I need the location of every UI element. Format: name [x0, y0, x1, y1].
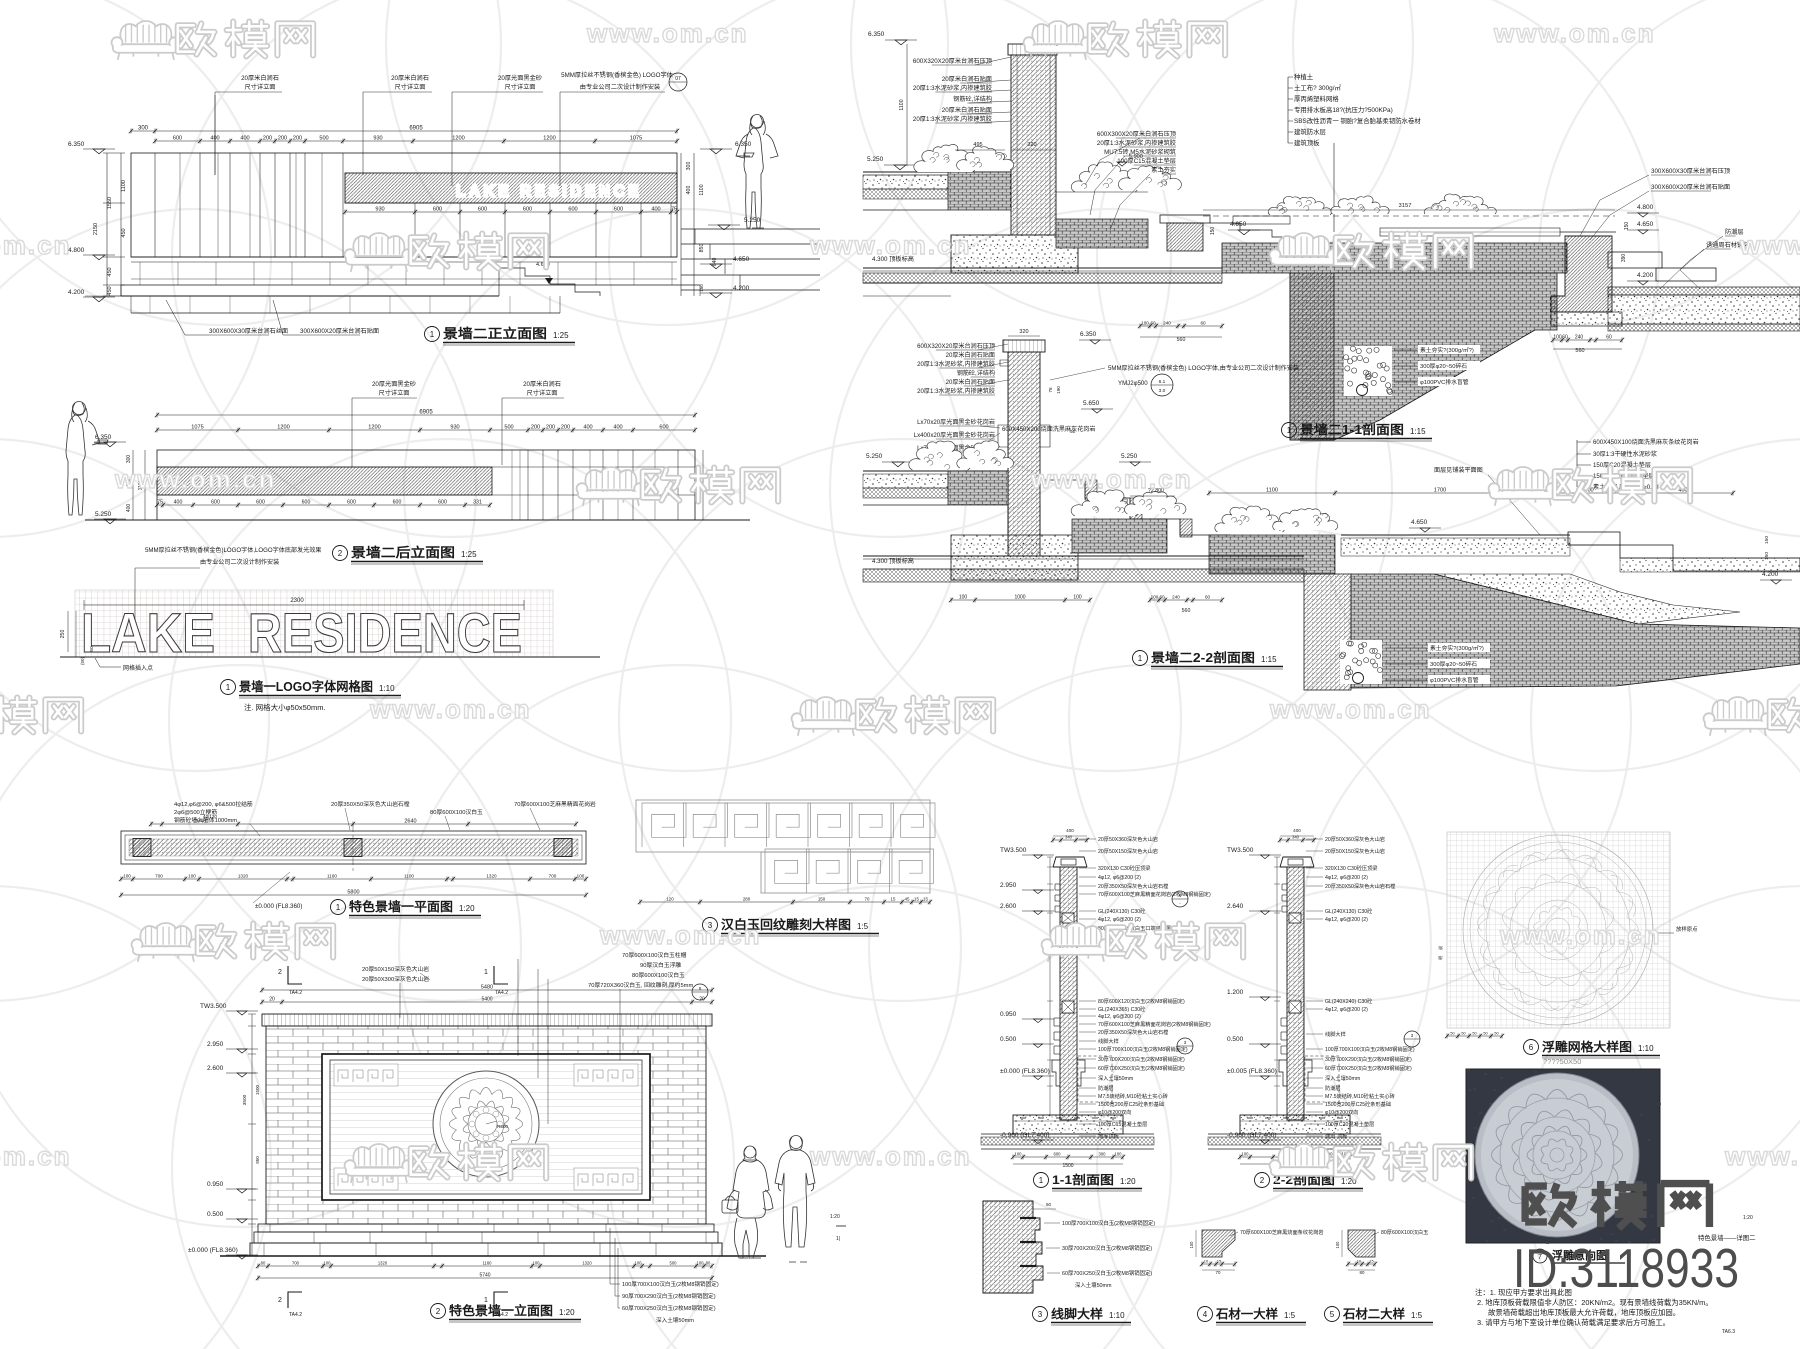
- svg-text:网格插入点: 网格插入点: [123, 664, 153, 672]
- svg-text:60: 60: [1200, 321, 1206, 326]
- svg-text:50: 50: [1472, 1032, 1476, 1036]
- svg-text:±0.005 (FL8.360): ±0.005 (FL8.360): [1227, 1068, 1277, 1075]
- svg-text:15: 15: [923, 897, 928, 902]
- svg-text:15: 15: [1217, 1259, 1222, 1264]
- svg-text:100: 100: [533, 1261, 541, 1266]
- svg-text:GL(240X365) C30砼: GL(240X365) C30砼: [1098, 1005, 1146, 1013]
- svg-text:60厚700X250汉白玉(2枚M8钢销固定): 60厚700X250汉白玉(2枚M8钢销固定): [622, 1304, 716, 1312]
- svg-text:1160: 1160: [482, 1261, 492, 1266]
- svg-text:Lx400x20厚光面黑金砂花岗岩: Lx400x20厚光面黑金砂花岗岩: [914, 431, 995, 439]
- svg-text:TA4.2: TA4.2: [289, 990, 302, 996]
- svg-text:60: 60: [1205, 595, 1211, 600]
- svg-text:700: 700: [292, 1261, 300, 1266]
- svg-text:1320: 1320: [486, 874, 497, 879]
- svg-text:专用排水板高18?(抗压力?500KPa): 专用排水板高18?(抗压力?500KPa): [1294, 105, 1393, 114]
- svg-text:1:5: 1:5: [1411, 1311, 1423, 1320]
- svg-text:1:10: 1:10: [1638, 1044, 1654, 1053]
- svg-text:1:5: 1:5: [857, 922, 869, 931]
- svg-text:www.om.cn: www.om.cn: [1030, 464, 1193, 494]
- svg-text:2: 2: [278, 1297, 282, 1304]
- svg-text:3157: 3157: [1399, 203, 1412, 209]
- svg-text:www.om.cn: www.om.cn: [1739, 230, 1800, 260]
- svg-text:80: 80: [1360, 1270, 1365, 1275]
- G4 section 1-1: [863, 31, 1800, 441]
- svg-text:0.950: 0.950: [207, 1181, 224, 1188]
- svg-text:300X600X30厚米台涧石压顶: 300X600X30厚米台涧石压顶: [1651, 167, 1730, 175]
- svg-text:240: 240: [1163, 321, 1171, 326]
- svg-text:TA4.2: TA4.2: [495, 990, 508, 996]
- svg-text:尺寸详立面: 尺寸详立面: [505, 83, 536, 91]
- svg-text:600: 600: [256, 500, 265, 506]
- svg-text:30厚1:3干硬性水泥砂浆: 30厚1:3干硬性水泥砂浆: [1593, 450, 1657, 458]
- svg-text:600: 600: [1054, 1152, 1062, 1157]
- svg-text:6: 6: [1529, 1043, 1534, 1052]
- svg-text:2150: 2150: [93, 223, 99, 235]
- svg-text:80厚600X100汉白玉: 80厚600X100汉白玉: [1381, 1228, 1428, 1236]
- svg-text:340: 340: [1292, 835, 1300, 840]
- svg-text:尺寸详立面: 尺寸详立面: [245, 83, 276, 91]
- svg-text:-0.960 (GL7.400): -0.960 (GL7.400): [1000, 1132, 1050, 1139]
- svg-text:1:15: 1:15: [1410, 427, 1426, 436]
- svg-text:495: 495: [973, 142, 982, 148]
- svg-text:600: 600: [393, 500, 402, 506]
- svg-text:100厚C15混凝土垫层: 100厚C15混凝土垫层: [1098, 1120, 1147, 1128]
- svg-text:90厚汉白玉浮雕: 90厚汉白玉浮雕: [640, 961, 681, 969]
- svg-text:4φ12, φ6@200 (2): 4φ12, φ6@200 (2): [1098, 1014, 1141, 1020]
- svg-text:5MM厚拉丝不锈钢(香槟金色)LOGO字体,LOGO字体底部: 5MM厚拉丝不锈钢(香槟金色)LOGO字体,LOGO字体底部发光效果: [145, 546, 321, 554]
- svg-text:60厚700X250汉白玉(2枚M8钢销固定): 60厚700X250汉白玉(2枚M8钢销固定): [1325, 1064, 1412, 1072]
- svg-text:6905: 6905: [409, 126, 423, 132]
- svg-text:0.500: 0.500: [1227, 1036, 1244, 1043]
- svg-text:尺寸详立面: 尺寸详立面: [395, 83, 426, 91]
- svg-text:防潮层: 防潮层: [1325, 1084, 1341, 1092]
- svg-text:6.350: 6.350: [735, 141, 752, 148]
- svg-text:建筑防水层: 建筑防水层: [1294, 127, 1327, 136]
- svg-text:LAKE RESIDENCE: LAKE RESIDENCE: [456, 183, 642, 201]
- svg-text:3: 3: [1038, 1310, 1043, 1319]
- svg-text:400: 400: [1293, 828, 1301, 833]
- svg-text:1100: 1100: [899, 99, 905, 110]
- svg-text:300厚φ20~50碎石: 300厚φ20~50碎石: [1430, 660, 1477, 668]
- svg-text:LAKE: LAKE: [81, 601, 215, 664]
- svg-text:1:20: 1:20: [459, 904, 475, 913]
- svg-text:由专业公司二次设计制作安装: 由专业公司二次设计制作安装: [580, 83, 660, 91]
- svg-text:1500宽200厚C25砼条形基础: 1500宽200厚C25砼条形基础: [1098, 1100, 1164, 1108]
- svg-text:850: 850: [699, 244, 705, 253]
- svg-text:600: 600: [568, 207, 577, 213]
- svg-text:1: 1: [1287, 426, 1292, 435]
- svg-text:1550: 1550: [107, 197, 113, 209]
- svg-text:景墙二正立面图: 景墙二正立面图: [443, 326, 547, 341]
- svg-text:150: 150: [818, 897, 826, 902]
- svg-text:1: 1: [484, 969, 488, 976]
- svg-text:尺寸详立面: 尺寸详立面: [527, 389, 558, 397]
- svg-text:钢筋砼,详结构: 钢筋砼,详结构: [953, 95, 992, 103]
- svg-text:300X600X30厚米台涧石丝面: 300X600X30厚米台涧石丝面: [209, 327, 288, 335]
- svg-text:5800: 5800: [347, 890, 359, 896]
- svg-text:2: 2: [278, 969, 282, 976]
- svg-text:1:25: 1:25: [553, 331, 569, 340]
- svg-text:5.250: 5.250: [1121, 453, 1138, 460]
- svg-text:20: 20: [269, 997, 275, 1003]
- svg-text:20厚1:3水泥砂浆,内掺建筑胶: 20厚1:3水泥砂浆,内掺建筑胶: [913, 115, 992, 123]
- G2 back elevation: [66, 380, 750, 564]
- G12 relief grid: [1437, 832, 1698, 1066]
- svg-text:0.950: 0.950: [1000, 1011, 1017, 1018]
- svg-text:M7.5烧结砖,M10砼粘土实心砖: M7.5烧结砖,M10砼粘土实心砖: [1098, 1092, 1168, 1100]
- svg-text:5.250: 5.250: [866, 453, 883, 460]
- svg-text:GL(240X240) C30砼: GL(240X240) C30砼: [1325, 997, 1373, 1005]
- svg-text:200: 200: [278, 136, 287, 142]
- svg-text:±0.000 (FL8.360): ±0.000 (FL8.360): [188, 1247, 238, 1254]
- svg-text:700: 700: [549, 874, 557, 879]
- svg-text:深入土壤50mm: 深入土壤50mm: [1075, 1281, 1112, 1289]
- svg-text:500: 500: [504, 425, 513, 431]
- svg-text:150: 150: [699, 284, 704, 292]
- svg-text:RESIDENCE: RESIDENCE: [248, 601, 522, 664]
- svg-text:注：1. 现应甲方要求出具此图: 注：1. 现应甲方要求出具此图: [1475, 1288, 1572, 1297]
- svg-text:300: 300: [126, 455, 132, 464]
- svg-text:2.600: 2.600: [207, 1065, 224, 1072]
- svg-text:70厚600X100芝麻黑精面花岗岩(2枚M8钢销固定): 70厚600X100芝麻黑精面花岗岩(2枚M8钢销固定): [1098, 890, 1211, 898]
- svg-text:300X600X20厚米台涧石贴面: 300X600X20厚米台涧石贴面: [300, 327, 379, 335]
- svg-text:75: 75: [157, 500, 163, 506]
- svg-text:20厚1:3水泥砂浆,内掺建筑胶: 20厚1:3水泥砂浆,内掺建筑胶: [1097, 139, 1176, 147]
- svg-text:6.1: 6.1: [1159, 379, 1166, 385]
- G7 meander: [642, 803, 935, 893]
- svg-text:80: 80: [706, 1261, 711, 1266]
- svg-text:20厚米白涧石: 20厚米白涧石: [391, 74, 429, 82]
- svg-text:100: 100: [1335, 1241, 1340, 1249]
- svg-text:80: 80: [261, 1261, 266, 1266]
- svg-text:400: 400: [1066, 828, 1074, 833]
- svg-text:200: 200: [546, 425, 555, 431]
- svg-text:2640: 2640: [404, 819, 416, 825]
- svg-text:1: 1: [226, 683, 231, 692]
- svg-text:4φ12, φ6@200 (2): 4φ12, φ6@200 (2): [1325, 1007, 1368, 1013]
- svg-text:600: 600: [347, 500, 356, 506]
- svg-text:300X600X20厚米台涧石贴面: 300X600X20厚米台涧石贴面: [1651, 183, 1730, 191]
- svg-text:5: 5: [1330, 1310, 1335, 1319]
- svg-text:2: 2: [436, 1307, 441, 1316]
- svg-text:线脚大样: 线脚大样: [1051, 1306, 1103, 1321]
- svg-text:2.640: 2.640: [1227, 903, 1244, 910]
- svg-text:景墙二1-1剖面图: 景墙二1-1剖面图: [1300, 422, 1404, 437]
- svg-text:景墙二2-2剖面图: 景墙二2-2剖面图: [1151, 650, 1255, 665]
- svg-text:www.om.cn: www.om.cn: [1269, 694, 1432, 724]
- svg-text:20厚50X360深灰色大山岩: 20厚50X360深灰色大山岩: [1325, 835, 1385, 843]
- svg-text:10: 10: [1204, 1259, 1209, 1264]
- svg-text:4φ12, φ6@200 (2): 4φ12, φ6@200 (2): [1098, 917, 1141, 923]
- svg-text:1: 1: [336, 903, 341, 912]
- svg-text:100厚700X100汉白玉(2枚M8钢销固定): 100厚700X100汉白玉(2枚M8钢销固定): [1098, 1045, 1188, 1053]
- svg-text:950: 950: [255, 1156, 260, 1164]
- svg-text:素土夯实?(300g/㎡?): 素土夯实?(300g/㎡?): [1420, 346, 1474, 354]
- svg-text:6.350: 6.350: [868, 31, 885, 38]
- svg-text:特色景墙一立面图: 特色景墙一立面图: [449, 1303, 553, 1318]
- svg-text:4φ12, φ6@200 (2): 4φ12, φ6@200 (2): [1325, 875, 1368, 881]
- svg-text:1075: 1075: [191, 425, 203, 431]
- svg-text:建筑顶板: 建筑顶板: [1294, 138, 1320, 147]
- G3 logo grid: [60, 546, 600, 712]
- svg-text:4.200: 4.200: [733, 285, 750, 292]
- svg-text:300厚φ20~50碎石: 300厚φ20~50碎石: [1420, 362, 1467, 370]
- svg-text:2.600: 2.600: [1000, 903, 1017, 910]
- svg-text:建筑 顶板: 建筑 顶板: [1325, 1132, 1348, 1140]
- svg-text:1:15: 1:15: [1261, 655, 1277, 664]
- svg-text:15: 15: [914, 897, 919, 902]
- svg-text:????50X50: ????50X50: [1543, 1057, 1581, 1066]
- svg-text:5.250: 5.250: [95, 511, 112, 518]
- svg-text:www.om.cn: www.om.cn: [369, 694, 532, 724]
- svg-text:600: 600: [478, 207, 487, 213]
- svg-text:400: 400: [651, 207, 660, 213]
- svg-text:100: 100: [1015, 1152, 1023, 1157]
- svg-text:75: 75: [671, 207, 677, 213]
- svg-text:1200: 1200: [543, 136, 555, 142]
- svg-text:200: 200: [561, 425, 570, 431]
- svg-text:TW3.500: TW3.500: [1000, 847, 1027, 854]
- svg-text:5480: 5480: [481, 985, 493, 991]
- svg-text:TW3.500: TW3.500: [200, 1003, 227, 1010]
- svg-text:20厚米白涧石贴面: 20厚米白涧石贴面: [946, 378, 995, 386]
- svg-text:240: 240: [1172, 595, 1180, 600]
- svg-text:450: 450: [107, 267, 113, 276]
- svg-text:由专业公司二次设计制作安装: 由专业公司二次设计制作安装: [200, 558, 279, 566]
- svg-text:100: 100: [123, 874, 131, 879]
- svg-text:6905: 6905: [419, 410, 433, 416]
- svg-text:600: 600: [659, 425, 668, 431]
- svg-text:www.om.cn: www.om.cn: [1499, 920, 1662, 950]
- svg-text:320X130 C30砼压顶梁: 320X130 C30砼压顶梁: [1098, 864, 1150, 872]
- svg-text:50: 50: [1461, 1032, 1465, 1036]
- svg-text:5740: 5740: [479, 1273, 490, 1279]
- svg-text:φ100PVC排水盲管: φ100PVC排水盲管: [1420, 378, 1469, 386]
- svg-text:250: 250: [60, 630, 66, 639]
- svg-text:70: 70: [865, 897, 870, 902]
- svg-text:240: 240: [1575, 335, 1584, 341]
- svg-text:20厚米白涧石: 20厚米白涧石: [241, 74, 279, 82]
- svg-text:www.om.cn: www.om.cn: [1724, 1141, 1800, 1171]
- svg-text:1160: 1160: [327, 874, 337, 879]
- svg-text:50: 50: [1483, 1032, 1487, 1036]
- svg-text:5MM厚拉丝不锈钢(香槟金色) LOGO字体,由专业公司二次: 5MM厚拉丝不锈钢(香槟金色) LOGO字体,由专业公司二次设计制作安装: [1108, 364, 1299, 372]
- svg-text:70厚600X100汉白玉柱帽: 70厚600X100汉白玉柱帽: [622, 951, 687, 959]
- svg-text:2. 地库顶板荷载限值非人防区：20KN/m2。现有景墙线荷: 2. 地库顶板荷载限值非人防区：20KN/m2。现有景墙线荷载为35KN/m。: [1477, 1298, 1713, 1307]
- svg-text:1700: 1700: [1434, 488, 1446, 494]
- svg-text:1: 1: [1138, 654, 1143, 663]
- svg-text:3.0: 3.0: [1159, 388, 1166, 394]
- svg-text:300: 300: [1099, 1152, 1107, 1157]
- svg-text:320: 320: [1019, 329, 1028, 335]
- svg-text:φ10@200双向: φ10@200双向: [1098, 1108, 1131, 1116]
- svg-text:150: 150: [1764, 552, 1770, 560]
- svg-text:防潮层: 防潮层: [1098, 1084, 1114, 1092]
- svg-text:500: 500: [670, 1261, 678, 1266]
- svg-text:300: 300: [686, 162, 692, 171]
- svg-text:450: 450: [121, 228, 127, 237]
- svg-text:1500宽200厚C25砼条形基础: 1500宽200厚C25砼条形基础: [1325, 1100, 1391, 1108]
- svg-text:1100: 1100: [404, 874, 414, 879]
- svg-text:1075: 1075: [630, 136, 642, 142]
- svg-text:5.250: 5.250: [867, 156, 884, 163]
- svg-text:深入土壤50mm: 深入土壤50mm: [1325, 1074, 1360, 1082]
- svg-text:07: 07: [675, 76, 681, 82]
- G6 plan: [119, 800, 596, 918]
- svg-text:10: 10: [1357, 1259, 1362, 1264]
- svg-text:100: 100: [324, 1261, 332, 1266]
- svg-text:1320: 1320: [238, 874, 249, 879]
- svg-text:100厚C15混凝土垫层: 100厚C15混凝土垫层: [1117, 157, 1176, 165]
- svg-text:TW3.500: TW3.500: [1227, 847, 1254, 854]
- G9 wall sections: [981, 828, 1154, 1169]
- svg-text:种植土: 种植土: [1294, 72, 1314, 81]
- svg-text:930: 930: [373, 136, 382, 142]
- svg-text:YMJ2φ500: YMJ2φ500: [1118, 380, 1148, 387]
- svg-text:20厚50X360深灰色大山岩: 20厚50X360深灰色大山岩: [1098, 835, 1158, 843]
- svg-text:1200: 1200: [452, 136, 464, 142]
- svg-text:GL(240X130) C30砼: GL(240X130) C30砼: [1098, 907, 1146, 915]
- svg-text:www.om.cn: www.om.cn: [599, 920, 762, 950]
- svg-text:150: 150: [1210, 227, 1216, 236]
- svg-text:www.om.cn: www.om.cn: [809, 1141, 972, 1171]
- svg-text:1320: 1320: [378, 1261, 388, 1266]
- svg-text:600: 600: [173, 136, 182, 142]
- svg-text:www.om.cn: www.om.cn: [809, 230, 972, 260]
- svg-text:100: 100: [188, 874, 196, 879]
- svg-text:±0.000 (FL8.360): ±0.000 (FL8.360): [1000, 1068, 1050, 1075]
- svg-text:280: 280: [743, 897, 751, 902]
- svg-text:100: 100: [1553, 335, 1562, 341]
- svg-text:SBS改性沥青一 铜胎?复合胎基柔韧防水卷材: SBS改性沥青一 铜胎?复合胎基柔韧防水卷材: [1294, 116, 1421, 125]
- svg-text:60厚700X250汉白玉(2枚M8钢销固定): 60厚700X250汉白玉(2枚M8钢销固定): [1062, 1269, 1152, 1277]
- svg-text:4φ12, φ6@200 (2): 4φ12, φ6@200 (2): [1098, 875, 1141, 881]
- svg-text:90厚700X290汉白玉(2枚M8钢销固定): 90厚700X290汉白玉(2枚M8钢销固定): [622, 1292, 716, 1300]
- svg-text:400: 400: [613, 425, 622, 431]
- G10 molding detail: [983, 1201, 1155, 1325]
- svg-text:0.500: 0.500: [207, 1211, 224, 1218]
- svg-text:注. 网格大小φ50x50mm.: 注. 网格大小φ50x50mm.: [244, 702, 326, 712]
- svg-text:60: 60: [1150, 321, 1156, 326]
- svg-text:150: 150: [1764, 536, 1770, 544]
- svg-text:3. 请甲方与地下室设计单位确认荷载满足要求后方可施工。: 3. 请甲方与地下室设计单位确认荷载满足要求后方可施工。: [1477, 1318, 1670, 1327]
- svg-text:1:10: 1:10: [1109, 1311, 1125, 1320]
- svg-text:1200: 1200: [277, 425, 289, 431]
- svg-text:20厚350X50深灰色大山岩石樘: 20厚350X50深灰色大山岩石樘: [1098, 882, 1168, 890]
- svg-text:100: 100: [577, 874, 585, 879]
- svg-text:190: 190: [1056, 386, 1061, 394]
- svg-text:4.200: 4.200: [1762, 571, 1779, 578]
- svg-text:1:20: 1:20: [1743, 1215, 1753, 1221]
- svg-text:www.om.cn: www.om.cn: [114, 464, 277, 494]
- svg-text:4.650: 4.650: [1411, 519, 1428, 526]
- svg-text:600X300X20厚米白涧石压顶: 600X300X20厚米白涧石压顶: [1097, 130, 1176, 138]
- svg-text:TA4.2: TA4.2: [289, 1312, 302, 1318]
- svg-text:浮雕网格大样图: 浮雕网格大样图: [1542, 1039, 1632, 1054]
- svg-text:1:10: 1:10: [379, 684, 395, 693]
- svg-text:30厚700X200汉白玉(2枚M8钢销固定): 30厚700X200汉白玉(2枚M8钢销固定): [1098, 1055, 1185, 1063]
- svg-text:钢筋砼墙入墙体1000mm: 钢筋砼墙入墙体1000mm: [174, 816, 237, 824]
- svg-text:200: 200: [531, 425, 540, 431]
- G14 watermark brand and id: [1525, 1181, 1709, 1228]
- svg-text:100: 100: [959, 595, 968, 601]
- svg-text:素土夯实: 素土夯实: [1151, 166, 1176, 174]
- svg-text:100: 100: [697, 1261, 705, 1266]
- svg-text:5400: 5400: [481, 997, 492, 1003]
- svg-text:景墙二后立面图: 景墙二后立面图: [351, 545, 455, 560]
- svg-text:70厚600X100芝麻黑烧面条纹花岗岩: 70厚600X100芝麻黑烧面条纹花岗岩: [1240, 1228, 1324, 1236]
- svg-text:(50): (50): [80, 657, 85, 666]
- svg-text:100: 100: [1073, 595, 1082, 601]
- svg-text:1:5: 1:5: [1284, 1311, 1296, 1320]
- svg-text:5.900: 5.900: [1129, 154, 1143, 160]
- svg-text:78: 78: [1048, 387, 1053, 393]
- svg-text:70: 70: [1216, 1270, 1221, 1275]
- svg-text:线脚大样: 线脚大样: [1325, 1030, 1346, 1038]
- svg-text:100: 100: [1141, 321, 1149, 326]
- svg-text:50: 50: [89, 646, 95, 652]
- svg-text:www.om.cn: www.om.cn: [586, 18, 749, 48]
- svg-text:80厚600X100汉白玉: 80厚600X100汉白玉: [632, 971, 685, 979]
- svg-text:60: 60: [1159, 595, 1165, 600]
- svg-text:1: 1: [484, 1297, 488, 1304]
- svg-text:-0.960 (GL7.400): -0.960 (GL7.400): [1227, 1132, 1277, 1139]
- svg-text:石材二大样: 石材二大样: [1342, 1306, 1405, 1321]
- svg-text:GL(240X130) C30砼: GL(240X130) C30砼: [1325, 907, 1373, 915]
- svg-text:200: 200: [293, 136, 302, 142]
- svg-text:www.om.cn: www.om.cn: [0, 230, 72, 260]
- svg-text:4φ12,φ6@200, φ6&500拉结筋: 4φ12,φ6@200, φ6&500拉结筋: [174, 800, 253, 808]
- svg-text:20厚350X50深灰色大山岩石樘: 20厚350X50深灰色大山岩石樘: [1325, 882, 1395, 890]
- svg-text:土工布? 300g/㎡: 土工布? 300g/㎡: [1294, 83, 1341, 92]
- svg-text:20厚米白涧石贴面: 20厚米白涧石贴面: [946, 351, 995, 359]
- svg-text:深入土壤50mm: 深入土壤50mm: [1098, 1074, 1133, 1082]
- svg-text:150: 150: [1624, 222, 1630, 231]
- svg-text:120: 120: [666, 897, 674, 902]
- svg-text:1200: 1200: [368, 425, 380, 431]
- svg-text:60厚700X250汉白玉(2枚M8钢销固定): 60厚700X250汉白玉(2枚M8钢销固定): [1098, 1064, 1185, 1072]
- svg-text:地库顶板: 地库顶板: [1098, 1132, 1120, 1140]
- svg-text:600X450X200烧面洗黑麻灰花岗岩: 600X450X200烧面洗黑麻灰花岗岩: [1002, 425, 1095, 433]
- svg-text:70厚720X360汉白玉, 回纹雕刻,厚约5mm: 70厚720X360汉白玉, 回纹雕刻,厚约5mm: [588, 981, 694, 989]
- svg-text:故景墙荷载超出地库顶板最大允许荷载，地库顶板应加固。: 故景墙荷载超出地库顶板最大允许荷载，地库顶板应加固。: [1488, 1308, 1680, 1317]
- svg-text:560: 560: [1182, 608, 1191, 614]
- svg-text:100厚C20混凝土垫层: 100厚C20混凝土垫层: [1325, 1120, 1374, 1128]
- svg-text:4.800: 4.800: [1637, 204, 1654, 211]
- svg-text:600: 600: [302, 500, 311, 506]
- svg-text:1-1剖面图: 1-1剖面图: [1052, 1172, 1114, 1187]
- svg-text:www.om.cn: www.om.cn: [0, 1141, 72, 1171]
- svg-text:400: 400: [126, 504, 132, 513]
- svg-text:400: 400: [240, 136, 249, 142]
- svg-text:厚丙烯塑料网格: 厚丙烯塑料网格: [1294, 94, 1339, 103]
- svg-text:400: 400: [583, 425, 592, 431]
- svg-text:60: 60: [1562, 335, 1568, 341]
- svg-text:1:20: 1:20: [1120, 1177, 1136, 1186]
- G13 photo of relief: [1466, 1069, 1662, 1244]
- svg-text:2: 2: [1260, 1176, 1265, 1185]
- svg-text:80厚600X120汉白玉(2枚M8钢销固定): 80厚600X120汉白玉(2枚M8钢销固定): [1098, 997, 1185, 1005]
- svg-text:www.om.cn: www.om.cn: [1493, 18, 1656, 48]
- svg-text:30厚700X200汉白玉(2枚M8钢销固定): 30厚700X200汉白玉(2枚M8钢销固定): [1062, 1244, 1152, 1252]
- svg-text:100: 100: [1242, 1152, 1250, 1157]
- svg-text:5.650: 5.650: [1083, 400, 1100, 407]
- svg-text:1000: 1000: [1014, 595, 1025, 601]
- svg-text:4.650: 4.650: [733, 256, 750, 263]
- svg-text:600: 600: [433, 207, 442, 213]
- svg-text:1: 1: [430, 330, 435, 339]
- svg-text:1.200: 1.200: [1227, 989, 1244, 996]
